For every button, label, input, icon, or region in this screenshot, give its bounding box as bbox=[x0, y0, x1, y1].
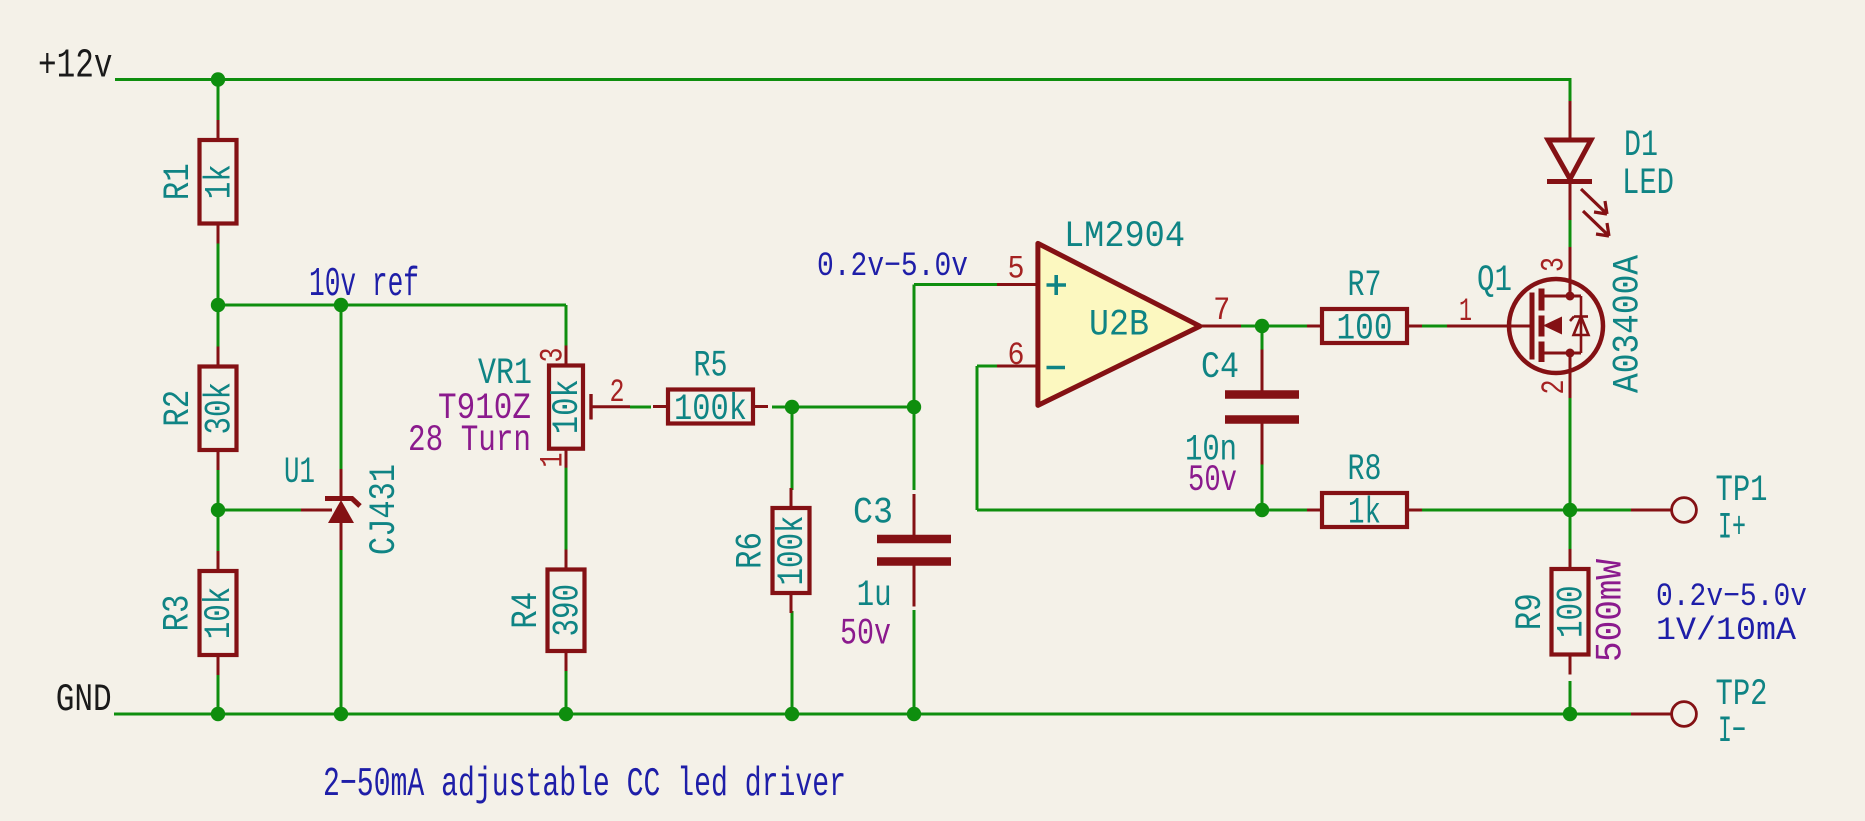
test point TP2 reference TP2 bbox=[1716, 674, 1768, 716]
capacitor C3 plates bbox=[877, 494, 951, 607]
potentiometer VR1 pin 2 bbox=[610, 374, 625, 411]
resistor R5 reference R5 bbox=[694, 346, 728, 388]
svg-text:R3: R3 bbox=[158, 595, 200, 632]
resistor R7 value 100 bbox=[1337, 309, 1393, 351]
shunt regulator U1 symbol bbox=[301, 469, 360, 550]
resistor R4 body bbox=[548, 550, 585, 672]
svg-text:500mW: 500mW bbox=[1591, 558, 1633, 662]
resistor R7 body bbox=[1307, 309, 1422, 343]
resistor R2 value 30k bbox=[199, 382, 241, 435]
svg-text:TP1: TP1 bbox=[1716, 470, 1768, 512]
svg-text:GND: GND bbox=[56, 678, 112, 722]
wire TP1 row bbox=[1570, 509, 1631, 512]
svg-text:Q1: Q1 bbox=[1477, 260, 1512, 302]
wire 10v ref rail bbox=[218, 304, 566, 307]
junction R5-R6 node bbox=[785, 400, 799, 414]
op-amp U2B pin 6 bbox=[1008, 337, 1025, 374]
svg-text:R7: R7 bbox=[1348, 265, 1382, 307]
resistor R1 body bbox=[200, 120, 237, 244]
svg-text:2: 2 bbox=[610, 374, 625, 411]
shunt regulator U1 reference U1 bbox=[284, 452, 315, 494]
svg-text:C3: C3 bbox=[853, 493, 893, 535]
junction R2-R3 / U1 ref bbox=[211, 503, 225, 517]
svg-text:LM2904: LM2904 bbox=[1064, 216, 1185, 258]
svg-text:50v: 50v bbox=[1188, 460, 1237, 502]
transistor Q1 reference Q1 bbox=[1477, 260, 1512, 302]
svg-text:6: 6 bbox=[1008, 337, 1025, 374]
svg-text:1V/10mA: 1V/10mA bbox=[1656, 612, 1797, 649]
potentiometer VR1 value 10k bbox=[547, 379, 589, 434]
junction GND U1 bbox=[334, 707, 348, 721]
svg-text:A03400A: A03400A bbox=[1608, 254, 1650, 393]
wire opamp output to R7 bbox=[1241, 325, 1307, 328]
wire +12v rail corner down to D1 bbox=[1569, 78, 1572, 101]
svg-text:5: 5 bbox=[1008, 251, 1025, 288]
svg-text:3: 3 bbox=[535, 348, 572, 363]
net label +12v bbox=[38, 44, 113, 90]
wire C3 top bbox=[913, 407, 916, 490]
transistor Q1 pin 1 bbox=[1459, 293, 1472, 330]
junction GND R6 bbox=[785, 707, 799, 721]
junction GND R3 bbox=[211, 707, 225, 721]
op-amp U2B unit name U2B bbox=[1089, 305, 1149, 347]
resistor R4 value 390 bbox=[547, 584, 589, 637]
resistor R5 body bbox=[653, 390, 768, 424]
wire VR1 wiper to R5 bbox=[630, 406, 651, 409]
svg-text:28 Turn: 28 Turn bbox=[408, 420, 531, 462]
wire C4 bottom stub bbox=[1261, 452, 1264, 510]
svg-text:R1: R1 bbox=[158, 163, 200, 200]
wire Q1 source down bbox=[1569, 398, 1572, 510]
svg-text:3: 3 bbox=[1536, 257, 1573, 272]
wire 10v ref down to VR1 pin3 bbox=[565, 305, 568, 346]
svg-text:100k: 100k bbox=[772, 516, 814, 586]
shunt regulator U1 value CJ431 bbox=[364, 464, 406, 555]
svg-text:R8: R8 bbox=[1348, 449, 1382, 491]
svg-text:1k: 1k bbox=[199, 164, 241, 199]
op-amp U2B plus input marker bbox=[1047, 275, 1067, 295]
resistor R2 body bbox=[200, 347, 237, 471]
resistor R8 reference R8 bbox=[1348, 449, 1382, 491]
svg-text:R2: R2 bbox=[158, 390, 200, 427]
net label 10v ref bbox=[309, 262, 419, 308]
svg-text:10v ref: 10v ref bbox=[309, 262, 419, 308]
svg-text:2−50mA adjustable CC led drive: 2−50mA adjustable CC led driver bbox=[323, 762, 846, 808]
junction feedback / C4 / R8 bbox=[1255, 503, 1269, 517]
transistor Q1 body bbox=[1447, 247, 1603, 398]
svg-text:I+: I+ bbox=[1718, 508, 1746, 550]
svg-text:R9: R9 bbox=[1510, 593, 1552, 630]
wire C3 bottom to GND bbox=[913, 610, 916, 714]
potentiometer VR1 pin 3 bbox=[535, 348, 572, 363]
capacitor C4 plates bbox=[1225, 350, 1299, 465]
test point TP1 value I+ bbox=[1718, 508, 1746, 550]
LED D1 value LED bbox=[1622, 163, 1674, 205]
svg-text:390: 390 bbox=[547, 584, 589, 637]
resistor R9 body bbox=[1552, 549, 1589, 675]
test point TP1 reference TP1 bbox=[1716, 470, 1768, 512]
op-amp U2B body bbox=[997, 243, 1241, 405]
svg-text:CJ431: CJ431 bbox=[364, 464, 406, 555]
svg-text:U1: U1 bbox=[284, 452, 315, 494]
junction 10v ref / U1 cathode bbox=[334, 298, 348, 312]
resistor R2 reference R2 bbox=[158, 390, 200, 427]
wire feedback vertical bbox=[976, 366, 979, 510]
resistor R8 value 1k bbox=[1348, 493, 1381, 535]
svg-text:1k: 1k bbox=[1348, 493, 1381, 535]
wire U1 ref row bbox=[218, 509, 301, 512]
svg-text:100: 100 bbox=[1337, 309, 1393, 351]
wire R3 bottom to GND bbox=[217, 673, 220, 714]
junction GND / R9 / TP2 bbox=[1563, 707, 1577, 721]
resistor R4 reference R4 bbox=[506, 592, 548, 629]
svg-text:R5: R5 bbox=[694, 346, 728, 388]
svg-text:100k: 100k bbox=[674, 389, 747, 431]
test point TP1 symbol bbox=[1631, 498, 1696, 523]
LED D1 symbol bbox=[1547, 101, 1609, 236]
wire feedback horizontal bbox=[977, 509, 1262, 512]
note 0.2v-5.0v (shunt) bbox=[1656, 578, 1807, 615]
junction GND R4 bbox=[559, 707, 573, 721]
junction +12v / R1 bbox=[211, 72, 225, 86]
capacitor C4 value 10n bbox=[1185, 430, 1237, 472]
op-amp U2B minus input marker bbox=[1047, 366, 1066, 370]
resistor R3 value 10k bbox=[199, 587, 241, 640]
transistor Q1 pin 3 bbox=[1536, 257, 1573, 272]
wire R4 bottom to GND bbox=[565, 669, 568, 714]
wire R3 top bbox=[217, 510, 220, 553]
wire R5 right to junction bbox=[772, 406, 914, 409]
op-amp U2B pin 5 bbox=[1008, 251, 1025, 288]
svg-text:I−: I− bbox=[1718, 711, 1746, 753]
svg-text:50v: 50v bbox=[840, 613, 891, 655]
svg-text:1u: 1u bbox=[857, 575, 892, 617]
svg-text:30k: 30k bbox=[199, 382, 241, 435]
junction R5-C3 node bbox=[907, 400, 921, 414]
svg-text:1: 1 bbox=[535, 453, 572, 468]
note 1V/10mA bbox=[1656, 612, 1797, 649]
wire GND rail bbox=[114, 713, 1631, 716]
resistor R3 body bbox=[200, 551, 237, 675]
resistor R8 body bbox=[1307, 493, 1422, 527]
wire opamp -input stub bbox=[977, 365, 997, 368]
junction GND C3 bbox=[907, 707, 921, 721]
op-amp U2B reference LM2904 bbox=[1064, 216, 1185, 258]
svg-text:U2B: U2B bbox=[1089, 305, 1149, 347]
wire R9 bottom to GND bbox=[1569, 681, 1572, 714]
resistor R9 field 500mW bbox=[1591, 558, 1633, 662]
wire R8 right to Q1 source node bbox=[1422, 509, 1570, 512]
wire R1 top bbox=[217, 80, 220, 122]
test point TP2 symbol bbox=[1631, 702, 1696, 727]
svg-text:0.2v−5.0v: 0.2v−5.0v bbox=[1656, 578, 1807, 615]
svg-text:+12v: +12v bbox=[38, 44, 113, 90]
svg-text:R4: R4 bbox=[506, 592, 548, 629]
net label 0.2v-5.0v (op-amp input) bbox=[817, 248, 968, 286]
svg-text:2: 2 bbox=[1536, 380, 1573, 395]
svg-text:100: 100 bbox=[1551, 585, 1593, 638]
svg-text:R6: R6 bbox=[731, 532, 773, 569]
svg-text:TP2: TP2 bbox=[1716, 674, 1768, 716]
resistor R3 reference R3 bbox=[158, 595, 200, 632]
potentiometer VR1 pin 1 bbox=[535, 453, 572, 468]
LED D1 reference D1 bbox=[1624, 125, 1658, 167]
wire R6 top bbox=[791, 407, 794, 490]
test point TP2 value I- bbox=[1718, 711, 1746, 753]
resistor R9 value 100 bbox=[1551, 585, 1593, 638]
wire R2 top bbox=[217, 305, 220, 348]
wire R6 bottom to GND bbox=[791, 611, 794, 714]
wire opamp +input vertical bbox=[913, 285, 916, 408]
op-amp U2B pin 7 bbox=[1213, 292, 1230, 329]
resistor R6 body bbox=[773, 488, 810, 613]
svg-text:7: 7 bbox=[1213, 292, 1230, 329]
svg-text:10k: 10k bbox=[547, 379, 589, 434]
wire R8 left bbox=[1262, 509, 1307, 512]
resistor R7 reference R7 bbox=[1348, 265, 1382, 307]
resistor R5 value 100k bbox=[674, 389, 747, 431]
wire D1 anode to Q1 drain bbox=[1569, 220, 1572, 247]
capacitor C3 value 1u bbox=[857, 575, 892, 617]
potentiometer VR1 value T910Z bbox=[438, 388, 531, 430]
junction 10v ref / R1-R2 bbox=[211, 298, 225, 312]
resistor R1 reference R1 bbox=[158, 163, 200, 200]
resistor R9 reference R9 bbox=[1510, 593, 1552, 630]
capacitor C3 reference C3 bbox=[853, 493, 893, 535]
potentiometer VR1 field 28 Turn bbox=[408, 420, 531, 462]
resistor R1 value 1k bbox=[199, 164, 241, 199]
junction output / C4 top bbox=[1255, 319, 1269, 333]
resistor R6 reference R6 bbox=[731, 532, 773, 569]
junction Q1 source / R9 / TP1 bbox=[1563, 503, 1577, 517]
svg-text:10k: 10k bbox=[199, 587, 241, 640]
svg-text:0.2v−5.0v: 0.2v−5.0v bbox=[817, 248, 968, 286]
note title 2-50mA adjustable CC led driver bbox=[323, 762, 846, 808]
wire R2 bottom bbox=[217, 450, 220, 510]
transistor Q1 pin 2 bbox=[1536, 380, 1573, 395]
capacitor C3 field 50v bbox=[840, 613, 891, 655]
capacitor C4 field 50v bbox=[1188, 460, 1237, 502]
svg-text:C4: C4 bbox=[1201, 347, 1239, 389]
wire R7 right to Q1 gate bbox=[1422, 325, 1447, 328]
svg-text:D1: D1 bbox=[1624, 125, 1658, 167]
svg-text:1: 1 bbox=[1459, 293, 1472, 330]
wire R9 top bbox=[1569, 510, 1572, 550]
wire U1 cathode up to 10v ref bbox=[340, 305, 343, 469]
wire C4 top stub bbox=[1261, 326, 1264, 360]
net label GND bbox=[56, 678, 112, 722]
svg-text:LED: LED bbox=[1622, 163, 1674, 205]
potentiometer VR1 reference VR1 bbox=[478, 353, 532, 395]
wire R1 bottom to 10v ref bbox=[217, 242, 220, 305]
resistor R6 value 100k bbox=[772, 516, 814, 586]
wire VR1 pin1 to R4 bbox=[565, 467, 568, 552]
capacitor C4 reference C4 bbox=[1201, 347, 1239, 389]
wire +12v rail bbox=[115, 78, 1570, 81]
potentiometer VR1 body bbox=[549, 346, 630, 468]
wire U1 anode down to GND bbox=[340, 550, 343, 714]
wire opamp +input row bbox=[914, 283, 997, 286]
transistor Q1 value AO3400A bbox=[1608, 254, 1650, 393]
